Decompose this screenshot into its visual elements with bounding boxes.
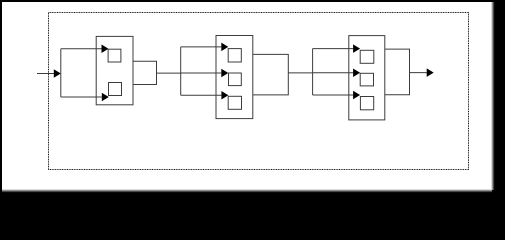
module M2b — [229, 73, 242, 86]
wire: input lead — [37, 73, 54, 75]
arrow: into module M1a — [102, 45, 109, 54]
module M3c — [360, 97, 373, 110]
arrow: into module M2a — [221, 43, 228, 52]
wire: branch to module M2c — [181, 94, 222, 96]
module M2c — [228, 96, 241, 109]
arrow: into module M3c — [353, 91, 360, 100]
arrow: into module M2c — [221, 91, 228, 100]
wire: system output lead — [410, 72, 427, 74]
wire: branch to module M3b — [313, 72, 354, 74]
block U3 TMR stage — [349, 36, 385, 120]
arrow: into module M2b — [221, 69, 228, 78]
module M3a — [360, 50, 374, 63]
wire: stage 1 output — [157, 72, 181, 74]
block U1 duplex stage — [96, 36, 133, 104]
block U2 TMR stage — [216, 36, 253, 119]
module M3b — [360, 73, 373, 86]
white page — [2, 2, 492, 190]
page bottom soft edge — [2, 189, 492, 193]
dotted system boundary — [49, 13, 469, 170]
wire: branch to module M3a — [313, 48, 354, 50]
arrow: into module M3b — [353, 69, 360, 78]
wire: branch to module M1b — [61, 96, 102, 98]
arrow: system output — [427, 68, 434, 77]
module M1a — [108, 49, 121, 62]
wire: stage 2 output — [288, 72, 312, 74]
wire: fan-out bus B1 — [60, 49, 62, 97]
wire: fan-out bus B3 — [312, 49, 314, 95]
voter bracket V2 — [253, 54, 288, 95]
wire: branch to module M2a — [181, 46, 222, 48]
voter bracket V1 — [133, 61, 157, 84]
wire: fan-out bus B2 — [180, 47, 182, 95]
arrow: into module M1b — [102, 93, 109, 102]
voter bracket V3 — [385, 49, 410, 95]
module M2a — [228, 49, 241, 62]
wire: branch to module M2b — [181, 72, 222, 74]
wire: branch to module M3c — [313, 94, 354, 96]
wire: branch to module M1a — [61, 48, 102, 50]
page right soft edge — [491, 2, 495, 190]
arrow: input into fan-out node B1 — [54, 69, 61, 78]
module M1b — [109, 83, 122, 96]
arrow: into module M3a — [353, 44, 360, 53]
